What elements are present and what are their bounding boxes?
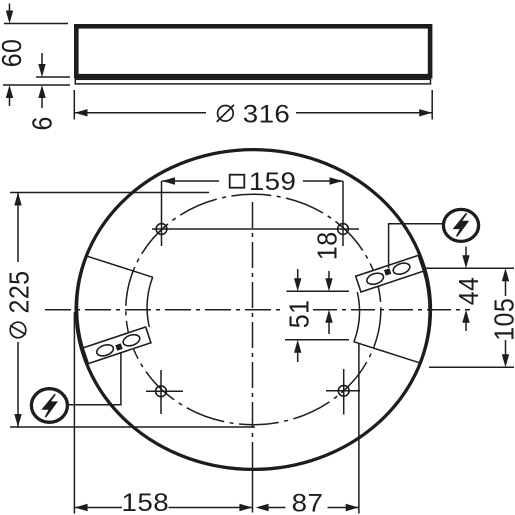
svg-text:87: 87 [292,489,324,515]
dim 158 left extension line [73,312,75,514]
extension line rim bottom [3,84,70,86]
dim 87 left arrow [256,504,269,511]
square symbol 159 [230,175,245,188]
svg-text:158: 158 [122,488,170,515]
dim 225 top extension line [10,192,209,194]
hole connecting line top [152,228,359,230]
terminal box upper right [356,255,424,292]
energy symbol circle upper [443,209,478,241]
dim 105 bottom arrow [505,340,507,356]
dim 316 left extension line [73,90,75,120]
terminal box lower left [77,256,152,363]
luminaire outline plan view [76,150,430,470]
connection square lower [115,343,122,350]
vertical centerline [252,202,254,467]
terminal hole upper right [392,261,412,276]
dim 316 line right segment [296,112,432,114]
dim 18 bottom arrow [328,322,330,335]
lightning bolt upper [454,213,467,236]
dim 225 bottom extension line [10,426,255,428]
svg-text:105: 105 [488,298,515,341]
dim 44 bottom arrow [465,322,467,332]
mounting hole top left [156,224,167,235]
dim 51 top arrow [297,269,299,280]
hole crosshair horizontal bottom right [326,390,360,392]
terminal hole lower left [122,333,142,348]
dim 316 line left segment [75,112,207,114]
dim 159 line right segment [303,180,343,182]
svg-text:225: 225 [3,271,34,314]
energy symbol circle lower [31,389,67,423]
horizontal centerline [45,309,284,311]
dim 159 right arrow [330,177,343,184]
cable channel fan upper right [354,271,429,363]
lightning bolt lower [43,394,56,417]
svg-text:18: 18 [311,231,342,260]
svg-text:159: 159 [249,167,297,195]
connection square upper [384,268,391,275]
svg-text:6: 6 [26,116,57,130]
dim 18 top arrow [328,271,330,280]
bolt circle centerline [126,194,381,424]
dim 316 right extension line [431,90,433,120]
dim 225 line upper segment [17,193,19,262]
dim 18 upper reference line [287,290,350,292]
luminaire body side view [76,26,430,76]
diameter symbol 316 [217,105,234,122]
dim 87 right extension line [358,343,360,514]
hole crosshair vertical top right [342,181,344,246]
dim 105 top arrow [505,280,507,296]
dimension 6 lower arrow [41,97,43,109]
dim 159 left arrow [162,177,175,184]
dim 159 line left segment [162,180,219,182]
dim 51 bottom arrow [297,352,299,363]
svg-text:60: 60 [0,39,27,68]
dim 316 right arrow [419,109,432,116]
leader line lower connection [67,352,121,405]
diffuser rim side view [75,79,430,84]
mounting hole bottom right [338,385,349,396]
extension line top surface [4,23,68,25]
terminal hole lower right [95,343,115,358]
dim 44 top arrow [465,247,467,257]
svg-text:44: 44 [453,277,484,306]
mounting hole top right [338,224,349,235]
hole crosshair vertical bottom left [160,370,162,414]
leader line upper connection [389,224,445,268]
hole crosshair vertical top left [161,181,163,246]
svg-text:51: 51 [283,300,314,329]
terminal hole upper left [365,271,385,286]
dimension 6 upper arrow [41,53,43,66]
dim 105 lower reference line [429,366,514,368]
dim 44 upper reference line [425,267,514,269]
svg-text:316: 316 [243,100,291,128]
extension line body bottom [36,76,70,78]
bottom dim line segment d [328,507,359,509]
hole crosshair horizontal bottom left [146,390,183,392]
vertical centerline lower solid extension [252,467,254,513]
mounting hole bottom left [156,386,167,397]
bottom dim line segment b [169,507,252,509]
bottom dim line segment c [267,507,286,509]
dim 225 top arrow [14,193,21,206]
bottom dim line segment a [75,507,122,509]
dim 225 bottom arrow [14,414,21,427]
dim 87 right arrow [346,504,359,511]
dimension 60 lower arrow [9,97,11,107]
dim 158 right arrow [239,504,252,511]
dim 225 line lower segment [17,342,19,427]
cable channel fan lower left [77,256,152,348]
dimension 60 upper arrow [9,4,11,13]
dim 158 left arrow [75,504,88,511]
hole crosshair vertical bottom right [343,369,345,415]
dim 51 lower reference line [285,339,349,341]
diameter symbol 225 [10,322,26,338]
dim 316 left arrow [75,109,88,116]
